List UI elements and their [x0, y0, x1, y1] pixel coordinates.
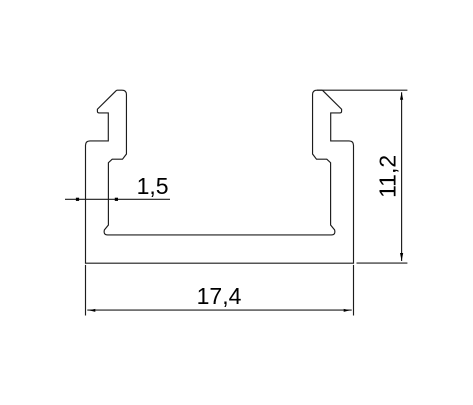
svg-text:1,5: 1,5 [137, 173, 169, 199]
svg-text:17,4: 17,4 [197, 283, 242, 309]
svg-text:11,2: 11,2 [374, 155, 400, 198]
